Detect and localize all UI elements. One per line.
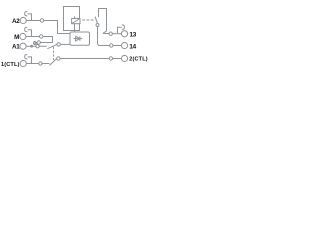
wire to 13 terminal bbox=[112, 33, 121, 35]
switch S1 arm bbox=[47, 44, 57, 48]
wire contact to 14 bbox=[98, 27, 110, 46]
svg-text:M: M bbox=[14, 34, 19, 41]
diode cathode bar bbox=[79, 36, 81, 41]
plug contact circle 1CTL bbox=[39, 62, 42, 65]
plug female A2 bbox=[25, 12, 28, 16]
coil slash bbox=[72, 19, 80, 24]
plug contact circle 14 bbox=[110, 44, 113, 47]
svg-text:1(CTL): 1(CTL) bbox=[1, 62, 20, 68]
relay contact arm bbox=[95, 17, 98, 24]
coil symbol bbox=[72, 19, 80, 24]
terminal 14 bbox=[121, 42, 127, 48]
terminal A2 bbox=[20, 17, 26, 23]
wire 1CTL to switch bbox=[42, 63, 49, 65]
diode box V1 bbox=[70, 32, 90, 45]
terminal 1(CTL) bbox=[20, 60, 26, 66]
svg-text:A2: A2 bbox=[12, 18, 20, 25]
wire M to switch upper throw bbox=[40, 37, 52, 43]
plug contact circle 13 bbox=[109, 32, 112, 35]
svg-text:14: 14 bbox=[129, 43, 136, 50]
relay contact fixed leg and loop to 13 bbox=[99, 9, 110, 34]
wire A1 row bbox=[26, 45, 47, 47]
diode wire bbox=[74, 38, 83, 40]
plug female 1CTL bbox=[25, 55, 28, 59]
plug contact circle M bbox=[40, 35, 43, 38]
wire M row bbox=[26, 36, 39, 38]
terminal A1 bbox=[20, 43, 26, 49]
coil wire vertical bbox=[74, 16, 76, 32]
plug male A2 bbox=[28, 14, 32, 21]
wire to 2CTL plug circle bbox=[60, 58, 109, 60]
plug male 13 bbox=[118, 27, 122, 33]
wire to 2CTL terminal bbox=[113, 58, 122, 60]
wire to 14 terminal bbox=[113, 45, 121, 47]
plug contact circle 2CTL bbox=[109, 57, 112, 60]
junction dot A1 bbox=[30, 45, 33, 48]
switch S2 arm bbox=[49, 59, 56, 66]
terminal 2(CTL) bbox=[121, 55, 127, 61]
switch S2 output circle bbox=[57, 57, 60, 60]
terminal M bbox=[20, 33, 26, 39]
svg-text:A1: A1 bbox=[12, 44, 20, 51]
mechanical link dashed bbox=[53, 47, 55, 60]
wire switch to diode box bbox=[60, 43, 70, 45]
wire A2 row bbox=[26, 20, 40, 22]
terminal 13 bbox=[121, 31, 127, 37]
plug contact circle A1 bbox=[36, 45, 39, 48]
plug contact circle A2 bbox=[40, 19, 43, 22]
wire A2 to coil branch bbox=[44, 21, 70, 34]
wire 1CTL row bbox=[26, 63, 38, 65]
switch upper throw circle bbox=[37, 41, 40, 44]
relay coil box K1 bbox=[64, 7, 80, 31]
svg-text:13: 13 bbox=[129, 32, 136, 39]
svg-text:2(CTL): 2(CTL) bbox=[129, 57, 148, 63]
contact pivot circle bbox=[96, 24, 99, 27]
plug female M bbox=[25, 27, 28, 31]
switch S1 output circle bbox=[57, 43, 60, 46]
plug male M bbox=[28, 30, 32, 37]
diode triangle bbox=[76, 36, 80, 41]
plug male 1CTL bbox=[28, 57, 32, 64]
actuator dashed line bbox=[82, 19, 94, 21]
plug female 13 bbox=[122, 25, 125, 29]
